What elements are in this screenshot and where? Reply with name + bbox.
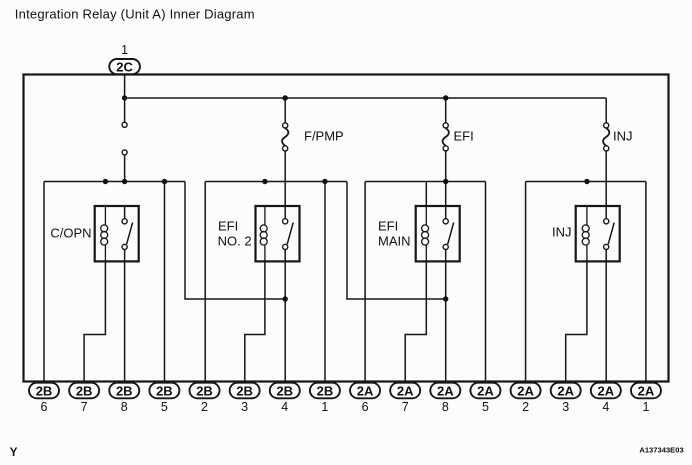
svg-text:2B: 2B	[317, 383, 334, 398]
relay C/OPN: switch contact	[122, 206, 133, 261]
svg-text:1: 1	[642, 400, 649, 414]
terminal 2B pin 1	[310, 383, 340, 414]
wire: EFI MAIN contact to terminal 2A-8	[445, 261, 447, 383]
svg-text:2B: 2B	[116, 383, 133, 398]
svg-text:2B: 2B	[76, 383, 93, 398]
svg-text:2A: 2A	[437, 383, 454, 398]
svg-text:2: 2	[522, 400, 529, 414]
relay C/OPN: case	[95, 206, 139, 261]
relay INJ: switch contact	[604, 206, 615, 261]
wire: C/OPN line to terminal 2B-6	[43, 182, 45, 384]
node: EFI NO. 2 line to 2B-1 junction	[322, 179, 327, 184]
svg-text:EFI: EFI	[218, 218, 238, 233]
svg-text:5: 5	[482, 400, 489, 414]
relay EFI NO. 2: coil	[260, 206, 267, 261]
svg-text:NO. 2: NO. 2	[218, 234, 252, 249]
terminal 2B pin 8	[109, 383, 139, 414]
svg-text:2B: 2B	[196, 383, 213, 398]
wire: EFI NO. 2 coil to terminal 2B-3	[245, 261, 265, 383]
svg-text:7: 7	[81, 400, 88, 414]
terminal 2B pin 6	[29, 383, 59, 414]
wire: EFI NO. 2 line to EFI MAIN contact output	[347, 182, 446, 300]
svg-text:2A: 2A	[397, 383, 414, 398]
wire: INJ line to terminal 2A-2	[525, 182, 527, 384]
terminal 2A pin 2	[511, 383, 541, 414]
svg-text:2B: 2B	[236, 383, 253, 398]
wire: EFI MAIN line to terminal 2A-6	[364, 182, 366, 384]
node: C/OPN coil junction	[103, 179, 108, 184]
wire: 2C terminal to +B bus	[124, 74, 126, 98]
terminal 2B pin 3	[230, 383, 260, 414]
svg-text:2B: 2B	[36, 383, 53, 398]
node: EFI NO. 2 contact output junction	[283, 296, 288, 301]
relay EFI MAIN: case	[416, 206, 460, 261]
node: bus / F/PMP fuse junction	[283, 95, 288, 100]
wire: INJ branch line	[526, 181, 646, 183]
svg-text:6: 6	[362, 400, 369, 414]
fuse INJ	[603, 98, 609, 206]
svg-text:EFI: EFI	[378, 218, 398, 233]
svg-text:2A: 2A	[638, 383, 655, 398]
terminal 2A pin 4	[591, 383, 621, 414]
svg-text:2A: 2A	[517, 383, 534, 398]
svg-text:Y: Y	[10, 447, 18, 459]
svg-text:MAIN: MAIN	[378, 234, 411, 249]
terminal 2C pin 1	[109, 43, 140, 74]
svg-text:Integration Relay (Unit A) Inn: Integration Relay (Unit A) Inner Diagram	[15, 7, 255, 22]
terminal 2A pin 6	[350, 383, 380, 414]
wire: EFI NO. 2 line to terminal 2B-2	[204, 182, 206, 384]
svg-text:3: 3	[562, 400, 569, 414]
relay unit outline	[24, 75, 669, 382]
fuse EFI	[443, 98, 449, 206]
terminal 2B pin 5	[149, 383, 179, 414]
svg-text:2C: 2C	[116, 59, 133, 74]
relay C/OPN: coil	[101, 206, 108, 261]
svg-text:1: 1	[121, 43, 128, 57]
relay EFI NO. 2: switch contact	[283, 206, 294, 261]
svg-text:8: 8	[121, 400, 128, 414]
node: EFI MAIN contact output junction	[443, 296, 448, 301]
terminal 2A pin 7	[390, 383, 420, 414]
terminal 2A pin 8	[430, 383, 460, 414]
wire: EFI NO. 2 contact to terminal 2B-4	[284, 261, 286, 383]
relay INJ: coil	[582, 206, 589, 261]
node: EFI fuse / EFI MAIN line junction	[443, 179, 448, 184]
svg-text:8: 8	[442, 400, 449, 414]
wire: C/OPN coil to terminal 2B-7	[84, 261, 105, 383]
connector break (2C feed contacts)	[122, 98, 127, 182]
wire: EFI NO. 2 branch line	[205, 181, 347, 183]
relay EFI MAIN: coil	[422, 206, 429, 261]
svg-text:A137343E03: A137343E03	[639, 446, 683, 455]
wire: C/OPN line to EFI NO. 2 contact output	[185, 182, 285, 300]
svg-text:2A: 2A	[477, 383, 494, 398]
svg-text:1: 1	[321, 400, 328, 414]
svg-text:4: 4	[602, 400, 609, 414]
svg-text:INJ: INJ	[552, 225, 572, 240]
terminal 2A pin 1	[631, 383, 661, 414]
wire: C/OPN branch line	[44, 181, 185, 183]
svg-text:C/OPN: C/OPN	[50, 226, 91, 241]
wire: EFI MAIN coil to terminal 2A-7	[405, 261, 426, 383]
node: EFI NO. 2 coil junction	[262, 179, 267, 184]
terminal 2A pin 5	[470, 383, 500, 414]
node: INJ coil junction	[584, 179, 589, 184]
svg-text:6: 6	[41, 400, 48, 414]
node: C/OPN line to 2B-5 junction	[162, 179, 167, 184]
relay INJ: case	[576, 206, 620, 261]
svg-text:2B: 2B	[156, 383, 173, 398]
node: 2C feed / C/OPN line junction	[122, 179, 127, 184]
wire: EFI NO. 2 line to terminal 2B-1	[324, 182, 326, 384]
terminal 2A pin 3	[551, 383, 581, 414]
terminal 2B pin 7	[69, 383, 99, 414]
relay EFI MAIN: switch contact	[443, 206, 454, 261]
wire: C/OPN line to terminal 2B-5	[164, 182, 166, 384]
terminal 2B pin 4	[270, 383, 300, 414]
relay EFI NO. 2: case	[256, 206, 300, 261]
wire: EFI MAIN branch line	[365, 181, 485, 183]
svg-text:3: 3	[241, 400, 248, 414]
svg-text:EFI: EFI	[454, 129, 474, 144]
wire: EFI MAIN line to coil	[425, 182, 427, 207]
svg-text:7: 7	[402, 400, 409, 414]
svg-text:INJ: INJ	[613, 129, 633, 144]
svg-text:2A: 2A	[357, 383, 374, 398]
wire: INJ contact to terminal 2A-4	[605, 261, 607, 383]
wire: INJ coil to terminal 2A-3	[566, 261, 587, 383]
svg-text:F/PMP: F/PMP	[304, 129, 344, 144]
svg-text:2B: 2B	[276, 383, 293, 398]
svg-text:5: 5	[161, 400, 168, 414]
wire: EFI MAIN line to terminal 2A-5	[485, 182, 487, 384]
node: bus / EFI fuse junction	[443, 95, 448, 100]
wire: C/OPN contact to terminal 2B-8	[124, 261, 126, 383]
wire: INJ line to terminal 2A-1	[645, 182, 647, 384]
node: bus / 2C feed junction	[122, 95, 127, 100]
terminal 2B pin 2	[190, 383, 220, 414]
svg-text:2A: 2A	[598, 383, 615, 398]
svg-text:4: 4	[281, 400, 288, 414]
svg-text:2A: 2A	[557, 383, 574, 398]
wire: +B bus	[125, 97, 607, 99]
fuse F/PMP	[282, 98, 288, 206]
svg-text:2: 2	[201, 400, 208, 414]
